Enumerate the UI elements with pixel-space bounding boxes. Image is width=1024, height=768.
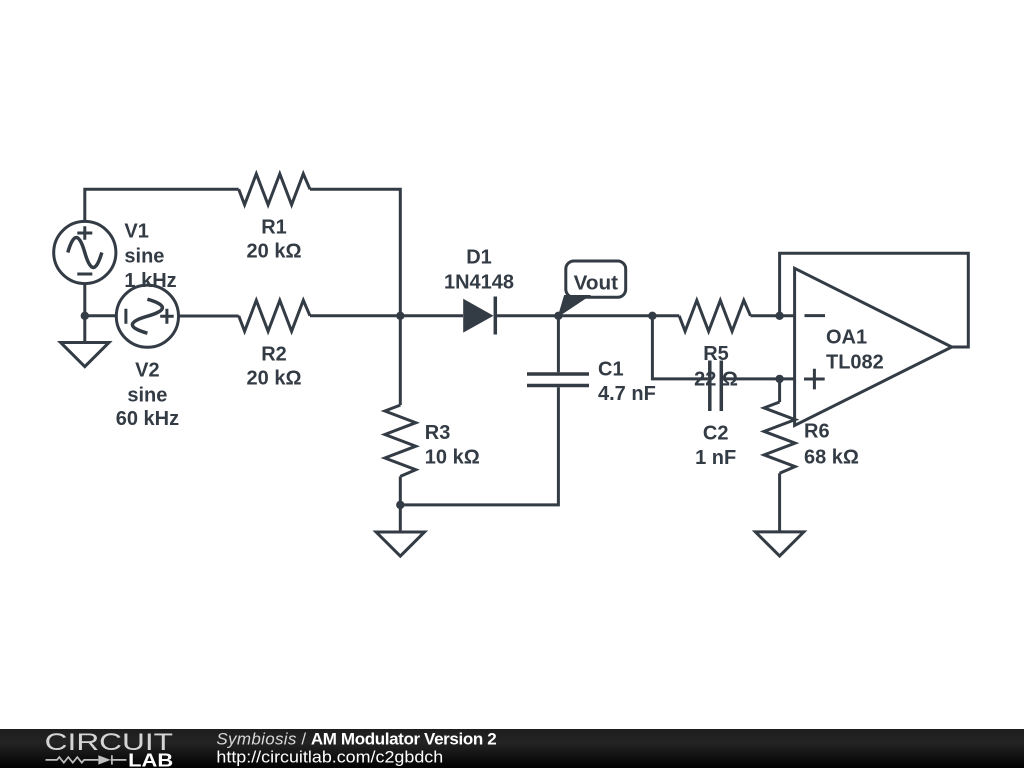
svg-text:4.7 nF: 4.7 nF [598,383,656,405]
svg-text:OA1: OA1 [826,326,867,348]
wire V1 top to R1 [85,189,239,221]
svg-text:Symbiosis / AM Modulator Versi: Symbiosis / AM Modulator Version 2 [216,730,496,749]
svg-text:20 kΩ: 20 kΩ [247,367,302,389]
capacitor C2 [710,361,722,412]
svg-text:R1: R1 [261,216,287,238]
ground under V1 [61,343,109,367]
svg-text:68 kΩ: 68 kΩ [804,446,859,468]
svg-text:Vout: Vout [574,273,619,295]
node Vout [554,312,562,320]
wire branch down to C2 row [652,316,708,379]
wire R5 to op-amp minus input [751,314,795,317]
svg-text:http://circuitlab.com/c2gbdch: http://circuitlab.com/c2gbdch [216,747,443,766]
op-amp plus symbol [804,369,825,390]
ground under R6 [755,532,803,556]
diode D1 [463,297,495,335]
wire feedback loop [780,253,969,347]
svg-text:20 kΩ: 20 kΩ [247,240,302,262]
svg-text:V1: V1 [124,220,148,242]
op-amp minus symbol [805,314,826,317]
node main junction R1/R2/R3 [396,312,404,320]
voltage source V2 [116,285,178,347]
Vout callout [558,261,625,316]
wire node to V2 [85,314,117,317]
svg-text:LAB: LAB [128,750,173,768]
ground under R3 [376,532,424,556]
svg-text:C1: C1 [598,358,624,380]
svg-text:R2: R2 [261,343,287,365]
voltage source V1 [54,221,116,283]
svg-text:sine: sine [127,384,167,406]
svg-text:1N4148: 1N4148 [444,271,514,293]
wire D1 to Vout node to R5 branch node [495,314,679,317]
resistor R6 [764,379,795,531]
svg-text:1 nF: 1 nF [695,447,736,469]
wire C2 to op-amp plus input [723,377,795,380]
capacitor C1 [400,316,589,505]
svg-text:TL082: TL082 [826,351,884,373]
node V1-V2-ground junction [81,312,89,320]
node minus input / feedback [775,312,783,320]
node plus input / R6 [775,375,783,383]
svg-text:60 kHz: 60 kHz [116,408,179,430]
op-amp OA1 triangle [795,268,952,425]
resistor R3 [385,316,416,531]
svg-text:R5: R5 [703,343,729,365]
svg-text:C2: C2 [703,422,729,444]
wire V2 to R2 [179,315,239,318]
svg-text:V2: V2 [135,359,159,381]
footer bar [0,729,1024,768]
svg-text:D1: D1 [466,246,492,268]
node R3 bottom / C1 return [396,501,404,509]
node branch to C2/R5 [648,312,656,320]
wire V1 bottom to ground [83,284,86,342]
wire R1 to vertical corner down to main node [310,189,400,315]
logo resistor-diode glyph [46,755,127,764]
svg-text:sine: sine [124,245,164,267]
resistor R1 [239,174,310,205]
resistor R5 [679,300,750,331]
resistor R2 [239,300,310,331]
svg-text:R6: R6 [804,420,830,442]
svg-text:10 kΩ: 10 kΩ [425,446,480,468]
svg-text:R3: R3 [425,422,451,444]
wire R2 to diode D1 [310,314,463,317]
